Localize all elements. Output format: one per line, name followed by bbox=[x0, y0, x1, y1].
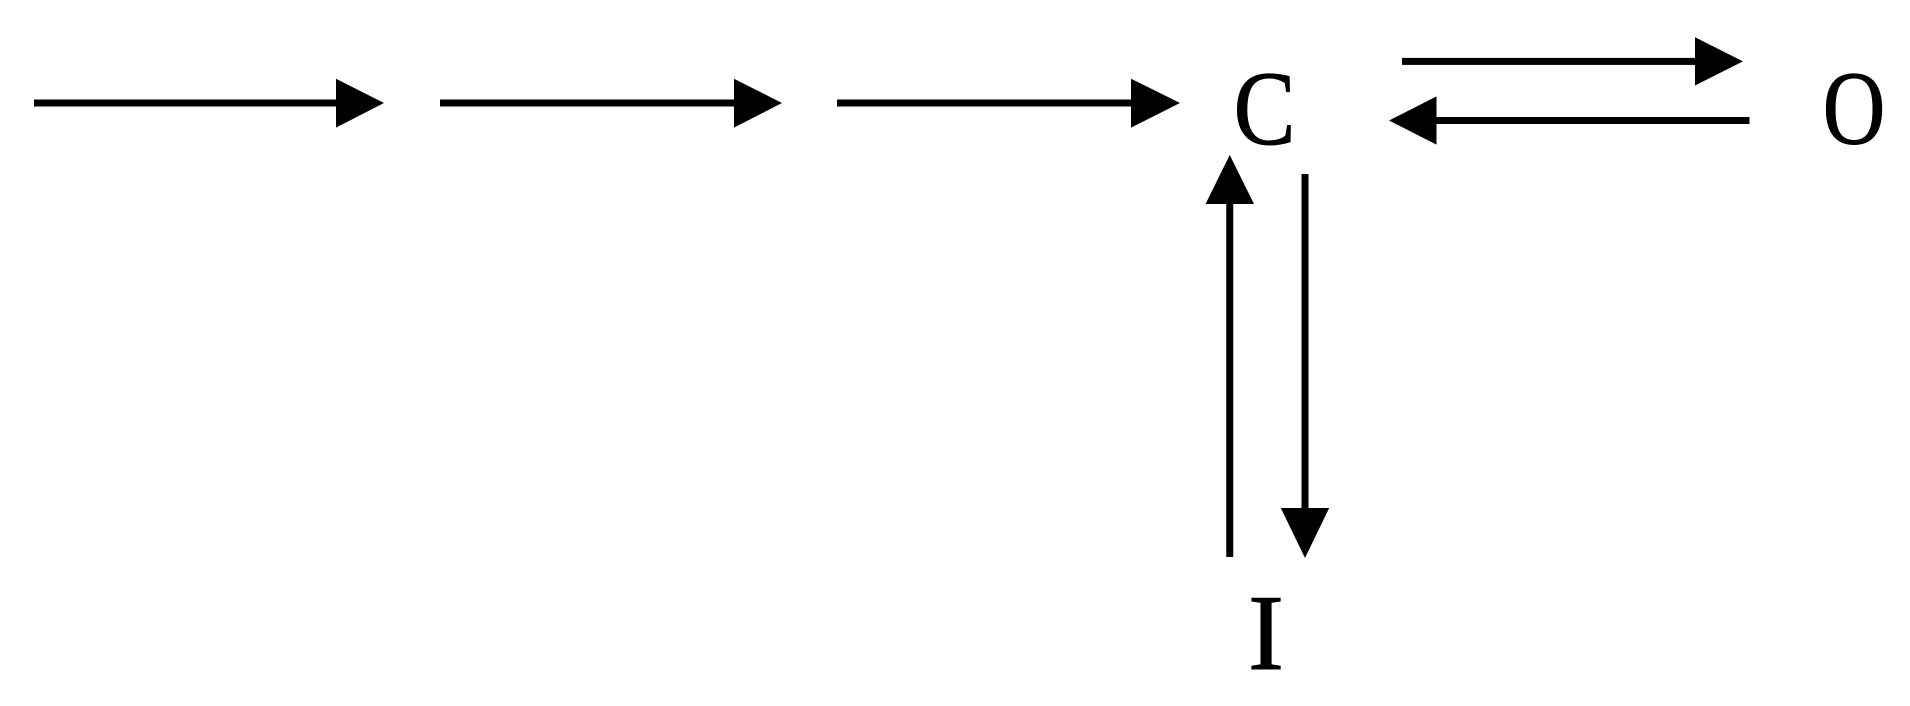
wire: arrow I to C (left vertical, pointing up) bbox=[1206, 155, 1255, 557]
wire: arrow O to C (lower, pointing left) bbox=[1389, 96, 1750, 144]
wire: flow arrow 2 (second, pointing right) bbox=[440, 79, 782, 128]
wire: flow arrow 3 (third, pointing right into node C) bbox=[837, 79, 1180, 128]
svg-text:C: C bbox=[1234, 51, 1296, 168]
wire: arrow C to O (upper, pointing right) bbox=[1402, 37, 1743, 85]
svg-text:O: O bbox=[1823, 50, 1886, 167]
svg-text:I: I bbox=[1248, 574, 1284, 693]
wire: flow arrow 1 (leftmost, pointing right) bbox=[34, 79, 384, 128]
wire: arrow C to I (right vertical, pointing down) bbox=[1281, 174, 1329, 558]
